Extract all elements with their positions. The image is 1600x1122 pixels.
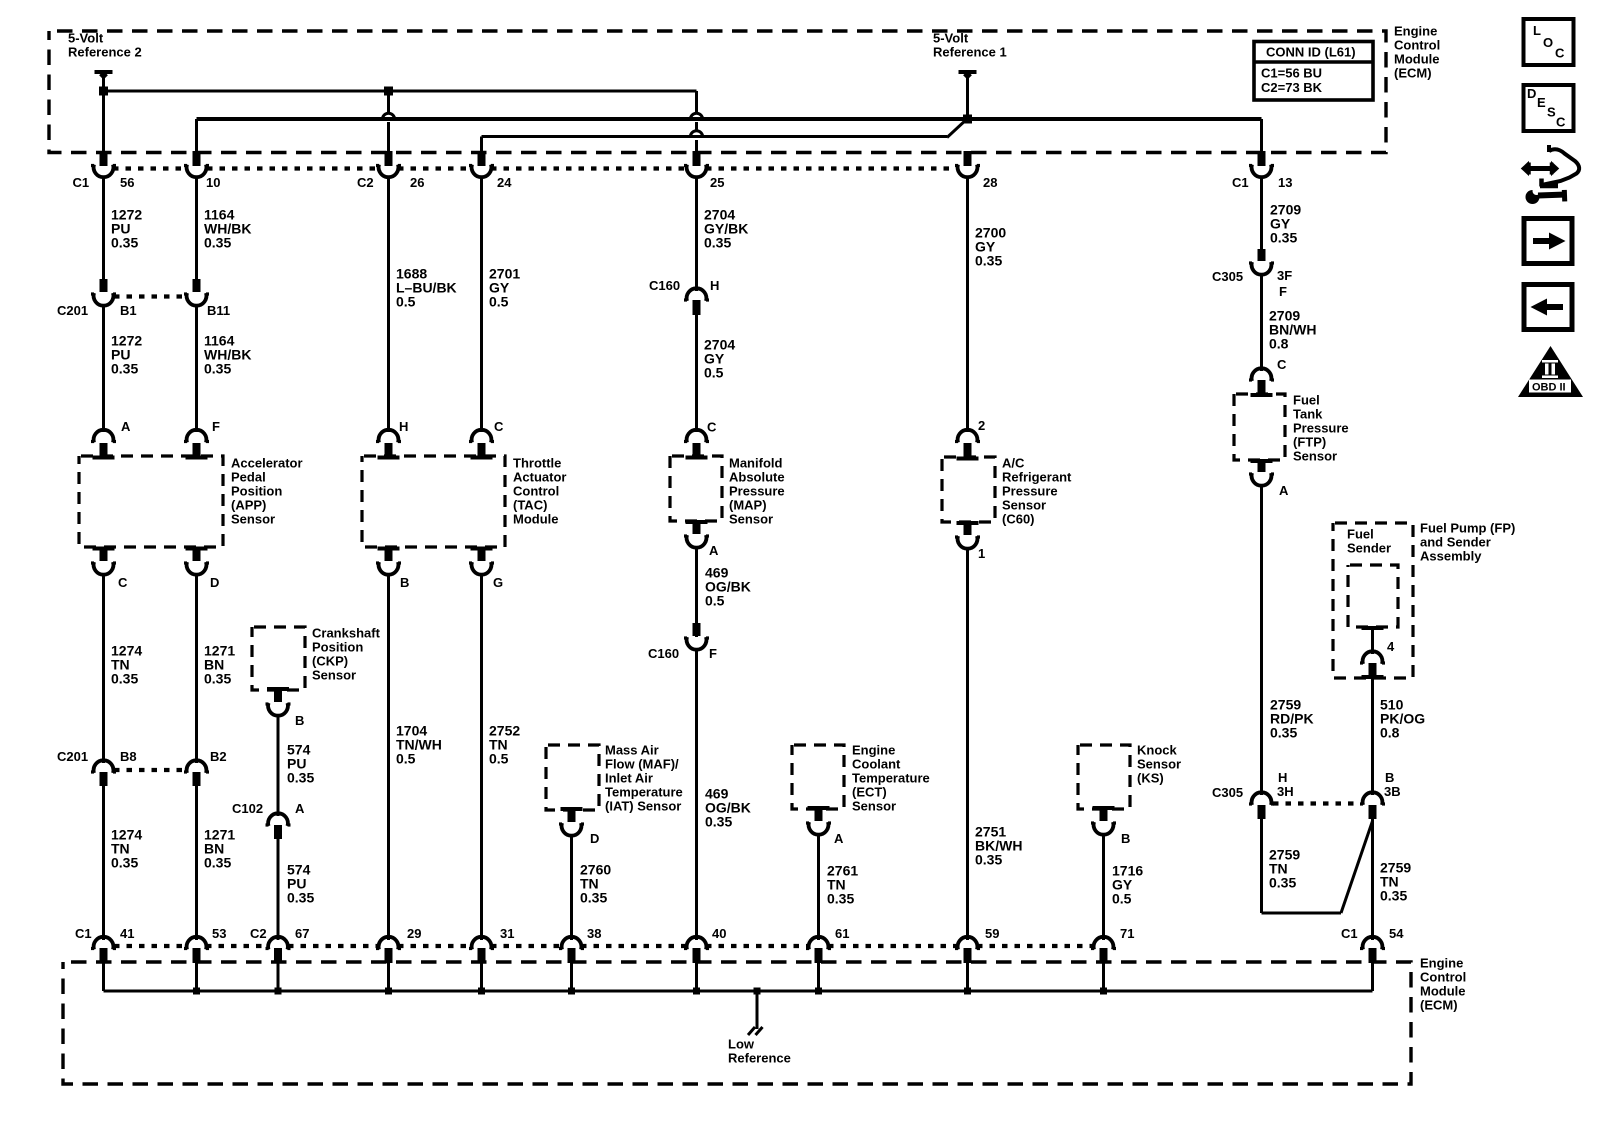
svg-text:Control: Control <box>1394 38 1440 53</box>
svg-text:0.35: 0.35 <box>975 852 1002 868</box>
svg-text:0.35: 0.35 <box>287 770 314 786</box>
svg-text:2: 2 <box>978 418 985 433</box>
svg-text:Sensor: Sensor <box>1137 757 1181 772</box>
svg-text:C: C <box>707 420 717 435</box>
Accelerator Pedal Position (APP) Sensor box <box>79 456 223 547</box>
svg-text:F: F <box>1279 284 1287 299</box>
Mass Air Flow (MAF)/Inlet Air Temperature (IAT) Sensor box <box>546 745 599 810</box>
svg-text:A: A <box>121 419 131 434</box>
svg-text:10: 10 <box>206 175 220 190</box>
svg-text:0.8: 0.8 <box>1380 725 1400 741</box>
svg-text:(ECM): (ECM) <box>1420 998 1458 1013</box>
connector pin 26 <box>385 151 393 166</box>
svg-text:0.35: 0.35 <box>1380 888 1407 904</box>
svg-text:B: B <box>1121 831 1130 846</box>
svg-text:B2: B2 <box>210 749 227 764</box>
svg-text:and Sender: and Sender <box>1420 535 1491 550</box>
diagonal jumper to pin 54 leg <box>1341 821 1373 913</box>
wire 1272 PU upper <box>102 177 105 279</box>
svg-text:Knock: Knock <box>1137 743 1178 758</box>
svg-text:A: A <box>295 801 305 816</box>
svg-text:Control: Control <box>1420 970 1466 985</box>
dotted C201 link <box>114 294 186 298</box>
connector pin 56 <box>100 151 108 166</box>
connector pin 54 <box>1363 937 1383 950</box>
wire down to pin 26 (hops over 5V ref1 bus) <box>387 91 390 113</box>
connector C305 B(3B) <box>1363 792 1383 805</box>
svg-text:B8: B8 <box>120 749 137 764</box>
svg-text:D: D <box>1527 86 1536 101</box>
svg-text:C160: C160 <box>649 278 680 293</box>
svg-text:3F: 3F <box>1277 268 1292 283</box>
svg-text:C: C <box>1556 115 1566 130</box>
svg-text:54: 54 <box>1389 926 1404 941</box>
wire 5V ref1 bus y=119 <box>197 117 1262 121</box>
A/C pin 1 <box>957 521 979 525</box>
wire 1716 GY <box>1102 834 1105 940</box>
connector C201 B11 <box>193 279 201 292</box>
svg-text:F: F <box>212 419 220 434</box>
svg-text:A: A <box>709 543 719 558</box>
svg-text:C: C <box>494 419 504 434</box>
svg-text:0.5: 0.5 <box>705 593 725 609</box>
svg-text:Position: Position <box>312 640 363 655</box>
Engine Control Module (ECM) top dashed box <box>49 31 1386 153</box>
svg-text:67: 67 <box>295 926 309 941</box>
svg-text:(C60): (C60) <box>1002 512 1035 527</box>
svg-text:C102: C102 <box>232 801 263 816</box>
svg-text:0.35: 0.35 <box>580 890 607 906</box>
svg-text:Flow (MAF)/: Flow (MAF)/ <box>605 757 679 772</box>
DESC icon <box>1524 85 1574 131</box>
svg-text:C: C <box>1277 357 1287 372</box>
svg-text:Reference: Reference <box>728 1051 791 1066</box>
svg-text:(CKP): (CKP) <box>312 654 348 669</box>
svg-text:H: H <box>1278 770 1287 785</box>
svg-text:C201: C201 <box>57 749 88 764</box>
MAP pin C <box>687 430 707 443</box>
svg-text:Crankshaft: Crankshaft <box>312 626 381 641</box>
connector C160 H <box>687 288 707 301</box>
Fuel Sender pin 4 <box>1362 626 1384 630</box>
svg-text:40: 40 <box>712 926 726 941</box>
svg-text:Low: Low <box>728 1037 755 1052</box>
Fuel Pump (FP) and Sender Assembly box <box>1333 523 1413 678</box>
svg-text:C1: C1 <box>1341 926 1358 941</box>
svg-text:Module: Module <box>1394 52 1440 67</box>
svg-text:(KS): (KS) <box>1137 771 1164 786</box>
wire y=136 to pin 24 with diagonal joining ref1 bus <box>482 135 948 138</box>
wire 1164 WH/BK upper <box>195 177 198 279</box>
svg-text:Refrigerant: Refrigerant <box>1002 470 1072 485</box>
svg-text:Position: Position <box>231 484 282 499</box>
connector APP pin F <box>187 430 207 443</box>
svg-text:0.35: 0.35 <box>111 235 138 251</box>
svg-text:3B: 3B <box>1384 784 1401 799</box>
svg-text:Engine: Engine <box>1420 956 1463 971</box>
wire 2759 TN (right leg) <box>1371 819 1374 940</box>
wire 1274 TN lower <box>102 786 105 940</box>
svg-text:Engine: Engine <box>1394 24 1437 39</box>
TAC pin B <box>378 547 400 551</box>
svg-text:C201: C201 <box>57 303 88 318</box>
svg-text:3H: 3H <box>1277 784 1294 799</box>
LOC icon <box>1524 19 1574 65</box>
wire 1272 PU lower <box>102 305 105 432</box>
svg-text:Sensor: Sensor <box>852 799 896 814</box>
connector pin 67 <box>268 937 288 950</box>
svg-text:D: D <box>590 831 599 846</box>
connector C160 F <box>693 623 701 636</box>
svg-text:O: O <box>1543 35 1553 50</box>
connector C305 3F <box>1258 249 1266 261</box>
APP pin D <box>193 548 201 561</box>
svg-text:(IAT) Sensor: (IAT) Sensor <box>605 799 681 814</box>
connector pin 10 <box>193 151 201 166</box>
svg-text:0.35: 0.35 <box>705 814 732 830</box>
svg-text:C1: C1 <box>73 175 90 190</box>
connector pin 59 <box>958 937 978 950</box>
connector pin 24 <box>478 151 486 166</box>
FTP pin A <box>1251 459 1273 463</box>
Engine Coolant Temperature (ECT) Sensor box <box>792 745 844 809</box>
svg-text:C2=73 BK: C2=73 BK <box>1261 80 1323 95</box>
svg-text:Sensor: Sensor <box>1002 498 1046 513</box>
svg-text:Pedal: Pedal <box>231 470 266 485</box>
svg-text:Actuator: Actuator <box>513 470 566 485</box>
wire 1271 BN lower <box>195 786 198 940</box>
svg-text:Inlet Air: Inlet Air <box>605 771 653 786</box>
svg-text:CONN ID (L61): CONN ID (L61) <box>1266 45 1356 60</box>
Knock Sensor (KS) box <box>1078 745 1130 809</box>
svg-text:0.35: 0.35 <box>204 361 231 377</box>
connector C201 B1 <box>100 279 108 292</box>
svg-text:0.5: 0.5 <box>396 751 416 767</box>
dotted C305 link <box>1273 801 1360 805</box>
svg-text:0.5: 0.5 <box>1112 891 1132 907</box>
ECT pin A <box>808 806 830 810</box>
svg-text:0.5: 0.5 <box>396 294 416 310</box>
svg-text:31: 31 <box>500 926 514 941</box>
svg-text:C1=56 BU: C1=56 BU <box>1261 66 1322 81</box>
svg-text:D: D <box>210 575 219 590</box>
FTP pin C <box>1252 368 1272 381</box>
svg-text:Pressure: Pressure <box>1293 421 1349 436</box>
svg-text:A: A <box>834 831 844 846</box>
svg-text:A/C: A/C <box>1002 456 1025 471</box>
wire down to pin 25 (hops two buses) <box>695 91 698 113</box>
svg-text:Control: Control <box>513 484 559 499</box>
wire 5V ref2 bus y=91 <box>104 90 697 93</box>
svg-text:(FTP): (FTP) <box>1293 435 1326 450</box>
node: junction to pin 26 <box>384 87 393 96</box>
svg-text:0.35: 0.35 <box>204 855 231 871</box>
wire down to pin 10 <box>195 119 198 161</box>
svg-text:Tank: Tank <box>1293 407 1323 422</box>
svg-text:OBD II: OBD II <box>1532 382 1566 394</box>
svg-text:H: H <box>710 278 719 293</box>
connector pin 38 <box>562 937 582 950</box>
A/C Refrigerant Pressure Sensor (C60) box <box>942 457 995 522</box>
svg-text:38: 38 <box>587 926 601 941</box>
svg-text:Sensor: Sensor <box>231 512 275 527</box>
Fuel Tank Pressure (FTP) Sensor box <box>1234 394 1285 460</box>
svg-text:1: 1 <box>978 546 985 561</box>
svg-text:0.5: 0.5 <box>704 365 724 381</box>
svg-text:0.35: 0.35 <box>1269 875 1296 891</box>
svg-text:41: 41 <box>120 926 134 941</box>
svg-text:(ECM): (ECM) <box>1394 66 1432 81</box>
OBD II icon <box>1518 346 1583 397</box>
svg-text:C1: C1 <box>1232 175 1249 190</box>
svg-text:24: 24 <box>497 175 512 190</box>
wire 1704 TN/WH <box>387 574 390 940</box>
svg-text:Coolant: Coolant <box>852 757 901 772</box>
wire 2761 TN <box>817 834 820 940</box>
TAC pin C <box>472 430 492 443</box>
dotted C201 link lower <box>114 768 186 772</box>
svg-text:Engine: Engine <box>852 743 895 758</box>
Low Reference ground tap <box>754 988 761 995</box>
svg-text:B1: B1 <box>120 303 137 318</box>
svg-text:S: S <box>1547 105 1556 120</box>
svg-text:0.35: 0.35 <box>975 253 1002 269</box>
wire 2751 BK/WH <box>966 548 969 940</box>
svg-text:59: 59 <box>985 926 999 941</box>
connector C201 B2 <box>187 760 207 773</box>
svg-text:Sensor: Sensor <box>1293 449 1337 464</box>
svg-text:Module: Module <box>1420 984 1466 999</box>
svg-text:L: L <box>1533 23 1541 38</box>
connector pin 53 <box>187 937 207 950</box>
svg-text:Assembly: Assembly <box>1420 549 1482 564</box>
svg-text:0.5: 0.5 <box>489 751 509 767</box>
wire down to pin 24 <box>480 137 483 161</box>
svg-text:(MAP): (MAP) <box>729 498 767 513</box>
left arrow icon <box>1524 285 1572 330</box>
svg-text:H: H <box>399 419 408 434</box>
Engine Control Module (ECM) bottom dashed box <box>63 962 1411 1084</box>
wire 2701 GY <box>480 177 483 432</box>
dotted connector row line <box>113 166 187 170</box>
wire 2709 GY <box>1260 177 1263 249</box>
wire 2704 GY <box>695 315 698 432</box>
svg-text:28: 28 <box>983 175 997 190</box>
svg-text:Module: Module <box>513 512 559 527</box>
svg-text:0.8: 0.8 <box>1269 336 1289 352</box>
svg-text:C305: C305 <box>1212 269 1243 284</box>
svg-text:C305: C305 <box>1212 785 1243 800</box>
wire 2759 RD/PK <box>1260 485 1263 795</box>
wire 2760 TN <box>570 835 573 940</box>
right arrow icon <box>1524 219 1572 264</box>
svg-text:0.35: 0.35 <box>204 671 231 687</box>
svg-text:B: B <box>1385 770 1394 785</box>
svg-text:0.35: 0.35 <box>1270 725 1297 741</box>
svg-text:B: B <box>295 713 304 728</box>
connector APP pin A <box>94 430 114 443</box>
connector pin 28 <box>964 151 972 166</box>
svg-text:13: 13 <box>1278 175 1292 190</box>
svg-text:4: 4 <box>1387 639 1395 654</box>
svg-text:Sensor: Sensor <box>729 512 773 527</box>
svg-text:Reference 1: Reference 1 <box>933 45 1007 60</box>
svg-text:0.35: 0.35 <box>111 855 138 871</box>
connector pin 25 <box>693 151 701 166</box>
node: 5V ref 1 junction <box>963 115 972 124</box>
wire 2709 BN/WH <box>1260 274 1263 371</box>
Crankshaft Position (CKP) Sensor box <box>252 627 305 690</box>
svg-text:F: F <box>709 646 717 661</box>
wire 1688 L-BU/BK <box>387 177 390 432</box>
svg-text:B: B <box>400 575 409 590</box>
svg-text:Absolute: Absolute <box>729 470 785 485</box>
svg-text:5-Volt: 5-Volt <box>933 31 969 46</box>
connector pin 71 <box>1094 937 1114 950</box>
svg-text:C: C <box>1555 46 1565 61</box>
low reference bus <box>102 962 105 991</box>
node: 5V ref 2 junction <box>99 87 108 96</box>
connector pin 40 <box>687 937 707 950</box>
svg-text:Reference 2: Reference 2 <box>68 45 142 60</box>
dotted connector row line bottom <box>114 944 187 948</box>
KS pin B <box>1093 806 1115 810</box>
CKP pin B <box>267 687 289 691</box>
svg-text:C160: C160 <box>648 646 679 661</box>
wire 510 PK/OG <box>1371 678 1374 795</box>
wire corner to pin 13 <box>1260 119 1263 161</box>
svg-text:0.35: 0.35 <box>111 361 138 377</box>
svg-text:0.35: 0.35 <box>111 671 138 687</box>
APP pin C <box>93 547 115 551</box>
svg-text:(ECT): (ECT) <box>852 785 887 800</box>
svg-text:C1: C1 <box>75 926 92 941</box>
svg-text:0.35: 0.35 <box>704 235 731 251</box>
A/C pin 2 <box>958 430 978 443</box>
MAP pin A <box>686 520 708 524</box>
svg-text:Temperature: Temperature <box>852 771 930 786</box>
svg-text:A: A <box>1279 483 1289 498</box>
svg-text:29: 29 <box>407 926 421 941</box>
wire 5V ref2 down to pin 56 <box>102 72 105 161</box>
svg-text:71: 71 <box>1120 926 1134 941</box>
svg-text:0.35: 0.35 <box>287 890 314 906</box>
Manifold Absolute Pressure (MAP) Sensor box <box>670 456 722 521</box>
wire 469 OG/BK 0.35 <box>695 649 698 940</box>
connector pin 13 <box>1258 151 1266 166</box>
connector pin 61 <box>809 937 829 950</box>
svg-text:Throttle: Throttle <box>513 456 561 471</box>
svg-text:Fuel: Fuel <box>1293 393 1320 408</box>
wire 2704 GY/BK <box>695 177 698 291</box>
svg-text:(APP): (APP) <box>231 498 266 513</box>
svg-text:53: 53 <box>212 926 226 941</box>
svg-text:Pressure: Pressure <box>1002 484 1058 499</box>
Throttle Actuator Control (TAC) Module box <box>362 456 505 547</box>
svg-text:Fuel: Fuel <box>1347 527 1374 542</box>
wire 1164 WH/BK lower <box>195 305 198 432</box>
svg-text:5-Volt: 5-Volt <box>68 31 104 46</box>
svg-text:25: 25 <box>710 175 724 190</box>
svg-text:0.35: 0.35 <box>827 891 854 907</box>
CONN ID (L61) table <box>1254 42 1373 101</box>
wire 469 OG/BK 0.5 <box>695 547 698 637</box>
svg-text:Mass Air: Mass Air <box>605 743 659 758</box>
svg-text:Temperature: Temperature <box>605 785 683 800</box>
wire 2752 TN <box>480 574 483 940</box>
wire 574 PU upper <box>277 715 280 816</box>
svg-text:26: 26 <box>410 175 424 190</box>
svg-text:(TAC): (TAC) <box>513 498 547 513</box>
svg-text:56: 56 <box>120 175 134 190</box>
wire 2759 TN (left leg) <box>1260 819 1263 913</box>
wire 2700 GY <box>966 177 969 432</box>
connector C201 B8 <box>94 760 114 773</box>
svg-text:0.35: 0.35 <box>1270 230 1297 246</box>
svg-text:61: 61 <box>835 926 849 941</box>
svg-text:C2: C2 <box>250 926 267 941</box>
connector pin 29 <box>379 937 399 950</box>
svg-text:C: C <box>118 575 128 590</box>
wire 1271 BN upper <box>195 574 198 763</box>
wire 574 PU lower <box>277 839 280 940</box>
connector C102 A <box>268 813 288 826</box>
wire 1274 TN upper <box>102 574 105 763</box>
connector pin 41 <box>94 937 114 950</box>
wire 5V ref1 down <box>966 72 969 119</box>
MAF pin D <box>561 807 583 811</box>
svg-text:Accelerator: Accelerator <box>231 456 303 471</box>
connector C305 H(3H) <box>1252 792 1272 805</box>
svg-text:0.35: 0.35 <box>204 235 231 251</box>
svg-text:Fuel Pump (FP): Fuel Pump (FP) <box>1420 521 1515 536</box>
svg-text:G: G <box>493 575 503 590</box>
connector pin 31 <box>472 937 492 950</box>
svg-text:Manifold: Manifold <box>729 456 782 471</box>
svg-text:C2: C2 <box>357 175 374 190</box>
svg-text:0.5: 0.5 <box>489 294 509 310</box>
TAC pin G <box>478 548 486 561</box>
hotlink wrench icon <box>1522 145 1580 187</box>
svg-text:E: E <box>1537 95 1546 110</box>
svg-text:Sensor: Sensor <box>312 668 356 683</box>
svg-text:B11: B11 <box>207 303 230 318</box>
svg-text:Pressure: Pressure <box>729 484 785 499</box>
svg-text:Sender: Sender <box>1347 541 1391 556</box>
TAC pin H <box>379 430 399 443</box>
